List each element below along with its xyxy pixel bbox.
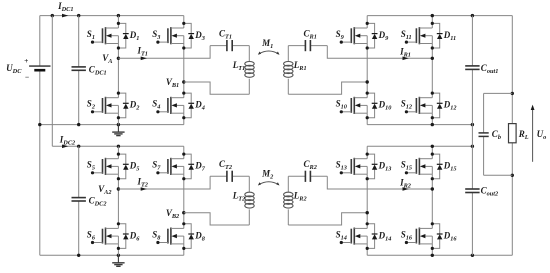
transistor S7 xyxy=(152,146,184,212)
capacitor C_R1 xyxy=(288,29,327,52)
capacitor C_DC2 xyxy=(72,146,107,255)
diode D8 xyxy=(182,222,206,250)
wire V_A to tank T2 with current I_T2 xyxy=(118,176,210,191)
wire V_B1 to tank bottom xyxy=(184,82,250,94)
wire bottom rail bridge R2 xyxy=(367,254,512,257)
diode D13 xyxy=(366,153,392,181)
transistor S8 xyxy=(152,213,184,256)
capacitor C_out1 xyxy=(465,16,498,125)
diode D3 xyxy=(182,22,205,50)
node V_A xyxy=(102,53,120,65)
wire bypass feed to bridge T2 xyxy=(51,16,53,147)
transistor S6 xyxy=(87,189,119,255)
svg-text:+: + xyxy=(24,56,28,65)
wire tank R1 to bridge with current I_R1 xyxy=(327,46,434,61)
wire top rail bridge T2 xyxy=(52,145,184,148)
diode D1 xyxy=(117,22,140,50)
transistor S10 xyxy=(336,82,368,125)
resistor R_L xyxy=(509,16,529,256)
transistor S2 xyxy=(87,58,119,124)
transistor S4 xyxy=(152,82,184,125)
transistor S14 xyxy=(336,213,368,256)
inductor L_R2 xyxy=(284,176,307,225)
capacitor C_b xyxy=(479,93,513,175)
diode D10 xyxy=(366,92,393,120)
diode D16 xyxy=(431,222,458,250)
mutual coupling M_1 xyxy=(258,38,280,55)
wire V_B2 to tank bottom xyxy=(184,213,250,225)
transistor S1 xyxy=(87,16,119,59)
node V_B1 xyxy=(166,77,186,89)
transistor S5 xyxy=(87,146,119,189)
wire tank R2 bottom to bridge xyxy=(288,211,369,225)
current label I_DC1 xyxy=(57,1,73,18)
capacitor C_DC1 xyxy=(72,16,107,125)
wire top rail bridge R1 xyxy=(367,14,512,17)
diode D15 xyxy=(431,153,457,181)
wire tank R1 bottom to bridge xyxy=(288,80,369,94)
wire bottom rail bridge T2 xyxy=(40,254,184,257)
transistor S3 xyxy=(152,16,184,82)
battery U_DC xyxy=(6,16,50,256)
ground bridge T2 xyxy=(112,255,124,266)
current label I_DC2 xyxy=(59,135,75,149)
diode D11 xyxy=(431,22,456,50)
diode D12 xyxy=(431,92,457,120)
capacitor C_T2 xyxy=(210,159,249,182)
transistor S12 xyxy=(401,58,433,124)
transistor S11 xyxy=(401,16,433,59)
node V_A2 xyxy=(98,184,120,196)
inductor L_T1 xyxy=(232,46,255,95)
diode D4 xyxy=(182,92,205,120)
diode D2 xyxy=(117,92,140,120)
svg-text:−: − xyxy=(25,73,29,82)
wire V_A to tank T1 with current I_T1 xyxy=(118,46,210,61)
inductor L_T2 xyxy=(232,176,255,225)
transistor S16 xyxy=(401,189,433,255)
inductor L_R1 xyxy=(284,46,307,95)
wire bottom rail bridge R1 xyxy=(367,123,474,126)
wire top rail bridge R2 xyxy=(367,145,474,148)
mutual coupling M_2 xyxy=(258,169,280,186)
diode D5 xyxy=(117,153,140,181)
wire tank R2 to bridge with current I_R2 xyxy=(327,176,434,191)
transistor S15 xyxy=(401,146,433,189)
capacitor C_T1 xyxy=(210,29,249,52)
transistor S9 xyxy=(336,16,368,82)
node V_B2 xyxy=(166,208,186,220)
output voltage U_o arrow xyxy=(531,105,547,162)
transistor S13 xyxy=(336,146,368,212)
wire top rail bridge T1 xyxy=(40,14,184,17)
diode D6 xyxy=(117,222,141,250)
diode D7 xyxy=(182,153,206,181)
wire bottom rail bridge T1 xyxy=(38,123,184,126)
diode D14 xyxy=(366,222,392,250)
capacitor C_out2 xyxy=(465,125,498,256)
diode D9 xyxy=(366,22,390,50)
capacitor C_R2 xyxy=(288,159,327,182)
ground bridge T1 xyxy=(112,125,124,136)
